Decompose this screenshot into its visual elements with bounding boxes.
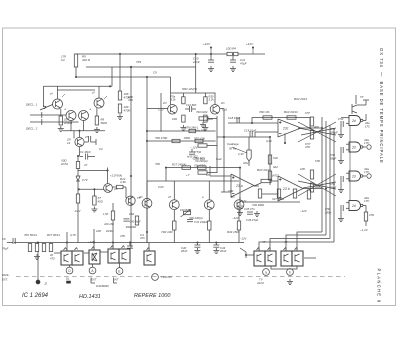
switch S8 [265, 248, 276, 267]
svg-text:28pF: 28pF [329, 157, 336, 161]
label v21 [206, 173, 210, 177]
title OX 734 BASE DE TEMPS PRINCIPALE [379, 48, 384, 164]
svg-text:C18 10μF: C18 10μF [228, 116, 241, 120]
wire v195 feed [195, 53, 197, 93]
label 3,4V [266, 134, 286, 144]
svg-text:4T: 4T [284, 240, 288, 244]
wire h67 [86, 66, 196, 68]
svg-text:47μF: 47μF [240, 62, 247, 66]
capacitor C11 47nF [230, 54, 247, 66]
svg-text:100Ω: 100Ω [184, 136, 191, 140]
label -12V arrow [240, 237, 247, 243]
resistor R41 [287, 116, 296, 119]
resistor R55 [310, 183, 320, 192]
label 70 1pc [259, 110, 270, 114]
pin A [89, 264, 96, 274]
svg-text:BAV 20/13: BAV 20/13 [257, 168, 271, 172]
wire h141 [147, 140, 216, 142]
wire Q7 base [147, 108, 168, 110]
ground C41 [194, 248, 200, 253]
svg-text:470K: 470K [124, 109, 132, 113]
svg-text:17C: 17C [364, 170, 370, 174]
svg-text:C56: C56 [325, 207, 330, 211]
svg-text:EXT.: EXT. [2, 278, 8, 282]
bracket below [271, 266, 297, 269]
wire h117 fb [252, 117, 310, 119]
ground bottom right [287, 279, 293, 284]
wire Q6 collector [107, 168, 109, 184]
label a Q2 [65, 108, 67, 111]
svg-text:C11: C11 [222, 108, 227, 112]
pin out b [367, 145, 371, 149]
ground R34e [202, 125, 208, 130]
transistor Q10 [169, 181, 179, 210]
svg-text:2N7A: 2N7A [60, 162, 68, 166]
ground R9b [94, 127, 100, 132]
svg-text:2N: 2N [162, 101, 166, 105]
wire in+ y123 [228, 122, 278, 124]
svg-text:2N: 2N [113, 187, 117, 191]
label R9b [101, 118, 109, 126]
label col r4 [194, 150, 202, 154]
resistor R10b [103, 203, 115, 229]
svg-text:2d: 2d [351, 175, 356, 179]
svg-text:+12V: +12V [203, 42, 211, 46]
label bav right [272, 174, 279, 178]
svg-text:X42: X42 [272, 156, 278, 160]
svg-text:4T: 4T [262, 240, 266, 244]
label v6 [243, 161, 249, 165]
resistor R39b [237, 210, 240, 243]
switch S6 [144, 248, 155, 266]
svg-text:J2: J2 [44, 282, 47, 286]
svg-text:470: 470 [128, 98, 133, 102]
wire v240a [239, 168, 241, 200]
capacitor C40 [213, 243, 226, 254]
op-amp U23a [231, 174, 254, 197]
input stub 2 [30, 119, 79, 125]
label 2N Q1 [48, 92, 65, 97]
resistor row1 a [155, 136, 180, 143]
bus step4 [259, 242, 334, 251]
svg-text:23 b: 23 b [282, 187, 290, 191]
wire vert x161 [160, 93, 162, 132]
capacitor C6 [2, 237, 15, 251]
label v2 [153, 71, 157, 75]
wire h181 [147, 180, 239, 182]
label REPERE 1000 [134, 293, 171, 299]
label v18 [262, 240, 266, 244]
wire sw rail [54, 243, 149, 254]
capacitor C55 [329, 176, 343, 190]
svg-text:C39 47μF: C39 47μF [246, 218, 259, 222]
label 2n404b [105, 230, 114, 233]
wire 23a in1 h [210, 175, 231, 177]
svg-text:REPERE 1000: REPERE 1000 [134, 293, 171, 299]
label 72R [161, 230, 173, 234]
label 2K470 [49, 253, 55, 261]
wire 23a out [254, 185, 259, 187]
resistor R32 33K [204, 93, 215, 104]
svg-text:72R: 72R [228, 189, 233, 193]
wire h168 [166, 167, 240, 169]
label v5 [216, 157, 222, 161]
resistor row1 b [184, 136, 204, 143]
wire sw right [240, 248, 316, 258]
label v11 [364, 167, 370, 174]
svg-text:X27 390Ω: X27 390Ω [271, 197, 284, 201]
label q11 2N [230, 195, 234, 199]
svg-text:C14 56F: C14 56F [186, 103, 197, 107]
label +12Vsw [88, 240, 96, 244]
svg-text:7P4: 7P4 [136, 60, 142, 64]
+12V label mid [246, 42, 254, 54]
resistor R8b [112, 185, 127, 198]
label col r1 [196, 110, 208, 114]
svg-text:C58: C58 [315, 159, 320, 163]
resistor R47 [254, 179, 271, 186]
resistor R36 [129, 212, 139, 225]
transistor Q12 [234, 200, 244, 210]
label 70K [24, 233, 37, 237]
wire Q5 bot [79, 147, 81, 156]
svg-text:70Ω 470Ω: 70Ω 470Ω [155, 136, 167, 140]
label v15 [96, 229, 102, 233]
resistor R37 [173, 210, 176, 243]
label 2N Q8 [220, 101, 224, 105]
ground under C11 [230, 66, 236, 71]
capacitor C41 [180, 243, 200, 254]
label 1k600 [96, 284, 110, 288]
svg-text:2d: 2d [351, 119, 356, 123]
capacitor C10 22nF [192, 54, 214, 64]
wire v166 [165, 168, 167, 181]
label col r6 [193, 164, 205, 168]
label v12 [364, 196, 370, 203]
svg-text:−12V: −12V [240, 237, 247, 241]
fan lower [298, 174, 336, 196]
label col r3 [194, 137, 205, 141]
svg-text:+12V: +12V [240, 199, 247, 203]
transistor Q7 [158, 105, 177, 115]
capacitor C8 [127, 243, 133, 253]
wire vert x170 [170, 77, 172, 93]
svg-text:C2: C2 [99, 147, 103, 151]
label v10 [364, 138, 370, 145]
resistor RC3 [198, 171, 207, 174]
svg-text:+7: +7 [186, 173, 190, 177]
svg-text:C53: C53 [330, 127, 335, 131]
svg-text:PANL.: PANL. [2, 273, 10, 277]
svg-text:3,3k: 3,3k [171, 98, 177, 102]
label v20 [186, 173, 190, 177]
pin TO [152, 274, 173, 281]
svg-text:−12V: −12V [300, 209, 308, 213]
label v4 [155, 162, 161, 166]
svg-text:2N: 2N [138, 195, 142, 199]
wire R1 drop [75, 67, 77, 77]
wire rail y90 [58, 89, 96, 91]
resistor R54 [310, 159, 320, 179]
svg-text:EXT: EXT [91, 278, 97, 282]
wire Q5 top [79, 131, 81, 138]
osc collector rail [171, 93, 216, 105]
switch S10 [292, 248, 303, 267]
svg-text:280pF: 280pF [329, 131, 338, 135]
label v16 [70, 233, 77, 237]
title PLANCHE 9 [377, 269, 382, 304]
label +12V a [240, 199, 247, 203]
diode D1 C7V [76, 176, 89, 194]
label v23 [99, 147, 103, 151]
label v14 [120, 234, 126, 238]
input stub 1 [30, 112, 66, 118]
label v13 [140, 233, 145, 240]
svg-text:C55: C55 [330, 182, 335, 186]
pin E [116, 263, 123, 274]
svg-text:2d: 2d [351, 146, 356, 150]
resistor R33e [172, 115, 185, 122]
gate U2c [346, 171, 366, 181]
svg-text:C54: C54 [330, 153, 335, 157]
svg-text:47: 47 [168, 195, 171, 199]
label a Q3 [90, 108, 92, 111]
label DECL 2 [26, 127, 38, 131]
svg-text:17C: 17C [364, 199, 370, 203]
svg-text:56kΩ: 56kΩ [101, 121, 109, 125]
wire 23a in1 [209, 166, 211, 176]
label q11b a [202, 196, 204, 199]
label q10 2N [168, 195, 171, 199]
resistor R31 33K [171, 93, 186, 104]
switch S2 [72, 248, 83, 266]
resistor R17M [185, 126, 199, 133]
wire h137 mid [217, 136, 270, 138]
svg-text:70K 56/14: 70K 56/14 [24, 233, 37, 237]
svg-text:470: 470 [50, 257, 55, 261]
resistor RC2 [198, 144, 207, 147]
label 2,4V [237, 152, 245, 156]
resistor R33 [172, 163, 191, 170]
resistor R3 10K [118, 91, 131, 100]
ground R4 [117, 114, 123, 119]
svg-text:C20: C20 [158, 185, 164, 189]
wire 23b in1 h [271, 180, 278, 182]
svg-text:2K: 2K [49, 253, 53, 257]
svg-text:INT: INT [114, 278, 119, 282]
resistor R48 [252, 189, 264, 207]
svg-text:1kΩ/600Ω: 1kΩ/600Ω [96, 284, 110, 288]
svg-text:a: a [265, 270, 267, 274]
resistor R5b [59, 109, 62, 125]
wire v310 fb [309, 118, 311, 129]
resistor R6b [74, 194, 82, 213]
label v9 [338, 117, 344, 121]
capacitor C54 [329, 147, 343, 161]
capacitor Cmid [189, 149, 195, 154]
svg-text:R27 240(A): R27 240(A) [172, 163, 186, 167]
wire long x78 [77, 203, 79, 243]
resistor RC1 [199, 117, 208, 120]
switch S9 [281, 248, 292, 267]
svg-text:17C: 17C [365, 125, 370, 129]
svg-text:26nF: 26nF [180, 249, 188, 253]
resistor R4 10K [118, 104, 131, 113]
svg-text:TP: TP [360, 95, 364, 99]
label +1,07V [110, 174, 122, 178]
capacitor C14 [185, 103, 197, 112]
wire v252 [251, 118, 253, 124]
svg-text:72R 390Ω: 72R 390Ω [252, 203, 264, 207]
resistor R20 [28, 244, 31, 252]
wire bottom rail [14, 242, 240, 244]
resistor R52 [305, 111, 314, 126]
svg-text:70Ω (24): 70Ω (24) [194, 137, 205, 141]
ground C54 [338, 158, 344, 163]
resistor R53 [310, 125, 319, 139]
resistor R5 10K [60, 156, 80, 169]
label 2N Q6 [113, 187, 117, 191]
capacitor C1 [80, 154, 96, 160]
wire 23a in2 h [221, 191, 231, 193]
svg-text:DECL. 1: DECL. 1 [26, 103, 38, 107]
svg-text:3,3k: 3,3k [209, 98, 215, 102]
svg-text:OX 734 — BASE DE TEMPS PRINC: OX 734 — BASE DE TEMPS PRINCIPALE [379, 48, 384, 164]
svg-text:17C: 17C [364, 141, 370, 145]
fan upper [298, 122, 336, 142]
wire h202 [242, 201, 300, 203]
svg-text:C6: C6 [2, 237, 6, 241]
svg-text:(77)Ω: (77)Ω [194, 150, 202, 154]
resistor R38 [208, 210, 211, 243]
svg-text:70Ω 1%: 70Ω 1% [259, 110, 270, 114]
resistor R21 [35, 244, 38, 252]
resistor R40 100K [263, 116, 272, 119]
label bav2013 [257, 168, 271, 172]
svg-text:76Ω 800: 76Ω 800 [194, 157, 205, 161]
svg-text:72R 13Ω: 72R 13Ω [161, 230, 173, 234]
svg-text:b: b [289, 270, 291, 274]
svg-text:IC 1 2694: IC 1 2694 [22, 293, 49, 299]
resistor R51 [300, 190, 311, 213]
svg-text:C9: C9 [153, 71, 157, 75]
label v25 [120, 177, 127, 184]
wire 23b in2 h [262, 193, 278, 195]
ground mid [254, 211, 260, 216]
transistor Q2 [66, 111, 76, 121]
switch S3 [89, 247, 100, 265]
capacitor C45b [123, 219, 141, 224]
svg-text:390: 390 [209, 117, 214, 121]
ground C35 [237, 210, 243, 215]
transistor Q6 [104, 184, 113, 193]
svg-text:ALIM: ALIM [256, 281, 264, 285]
svg-text:C2: C2 [61, 58, 65, 62]
label HD 1431 [79, 294, 101, 300]
label col r5 [194, 157, 205, 161]
svg-text:R27 30/14: R27 30/14 [47, 233, 60, 237]
svg-text:1,5K: 1,5K [103, 212, 109, 216]
label 43a [365, 121, 370, 129]
pin D [66, 265, 73, 274]
label IC 1 2694 [22, 293, 49, 299]
ground C56 [338, 216, 344, 221]
junction J2 [36, 280, 47, 286]
label v1 [136, 60, 142, 64]
trimmer cadrage [247, 137, 251, 166]
svg-text:PLANCHE 9: PLANCHE 9 [377, 269, 382, 304]
svg-text:E: E [118, 269, 120, 273]
label v19 [228, 189, 233, 193]
label -12V a [232, 216, 240, 220]
label PANL EXT [2, 273, 10, 282]
wire R3 top [119, 54, 121, 91]
wire top rail b [238, 53, 265, 55]
svg-text:100 BAL: 100 BAL [180, 208, 191, 212]
wire in- y132 [255, 131, 278, 133]
svg-text:TRIG AV: TRIG AV [161, 275, 173, 279]
svg-text:C7A 240pF: C7A 240pF [194, 220, 208, 224]
transistor Q4 [94, 98, 104, 108]
svg-text:C10: C10 [158, 108, 164, 112]
svg-text:23 a: 23 a [235, 184, 243, 188]
svg-text:2d: 2d [351, 204, 356, 208]
wire h170 [78, 170, 108, 172]
svg-text:2N: 2N [230, 195, 234, 199]
svg-text:+12V: +12V [246, 42, 254, 46]
gate U2d [346, 201, 366, 211]
ground C53 [338, 132, 344, 137]
label minus12v mid [190, 146, 199, 150]
pin out c [367, 174, 371, 178]
svg-text:78μF: 78μF [2, 247, 9, 251]
svg-text:HD.1431: HD.1431 [79, 294, 101, 300]
capacitor C18 [228, 116, 241, 123]
capacitor C7A [187, 220, 208, 225]
svg-text:C1 48nF: C1 48nF [80, 150, 91, 154]
svg-text:740 Ω/24: 740 Ω/24 [196, 110, 208, 114]
gate U2b [346, 142, 366, 152]
wire h77 [76, 76, 171, 78]
label R27 [47, 233, 60, 237]
transistor Q8 [210, 105, 227, 115]
svg-text:C52: C52 [338, 117, 344, 121]
svg-text:C35 47n: C35 47n [244, 207, 255, 211]
svg-text:BAV 20/13: BAV 20/13 [284, 110, 298, 114]
wire U23c out [301, 127, 322, 129]
ground C55 [338, 187, 344, 192]
op-amp U23b [278, 176, 303, 201]
resistor R46 [268, 165, 278, 180]
svg-text:43Ω: 43Ω [98, 199, 104, 203]
svg-text:47: 47 [85, 135, 88, 139]
svg-text:Cadrage: Cadrage [227, 142, 239, 146]
resistor R14 10ohm [226, 47, 238, 56]
resistor R23 [49, 244, 52, 252]
svg-text:−12V: −12V [232, 216, 240, 220]
label 2N Q4 [90, 91, 107, 99]
bus step3 [270, 239, 330, 252]
label DL [66, 277, 71, 284]
wire v255 [254, 132, 256, 137]
trigger rail [43, 67, 112, 107]
switch S1 [61, 248, 72, 266]
resistor R35 [194, 159, 208, 169]
transistor Q9 [142, 181, 152, 243]
wire sw tops [67, 229, 113, 251]
label v17 [284, 240, 288, 244]
svg-text:J2Ω 13Ω: J2Ω 13Ω [104, 223, 114, 226]
